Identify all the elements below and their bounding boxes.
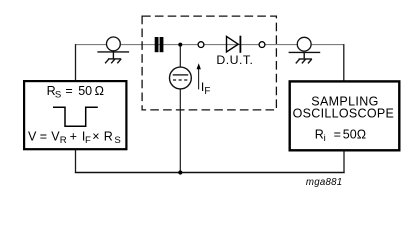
wire: bottom ground bus	[76, 171, 345, 174]
svg-text:IF: IF	[201, 80, 210, 97]
wire: top horizontal net from pulse generator to oscilloscope	[76, 44, 344, 46]
pulse generator box	[24, 81, 126, 149]
svg-text:OSCILLOSCOPE: OSCILLOSCOPE	[293, 106, 395, 120]
terminal pin (left of D.U.T.)	[198, 42, 204, 48]
sampling oscilloscope box	[290, 81, 400, 150]
dashed test-fixture enclosure	[142, 16, 276, 110]
ground (right connector)	[289, 52, 321, 63]
wire: vertical from oscilloscope box down to ground bus	[343, 151, 345, 173]
diode D.U.T.	[227, 36, 242, 53]
capacitor C1 (DC block)	[155, 37, 164, 52]
wire: vertical from top net down to oscilloscope box	[343, 44, 345, 81]
wire: vertical from current source down to ground bus	[179, 86, 181, 173]
wire: vertical from top net down to pulse-generator box	[75, 44, 77, 80]
wire: vertical from pulse-generator box down to ground bus	[75, 150, 77, 173]
coax connector J2 (right)	[297, 37, 311, 51]
junction on ground bus	[178, 170, 182, 174]
current source U1 (DC source symbol)	[170, 67, 192, 89]
svg-text:mga881: mga881	[306, 177, 343, 188]
terminal pin (right of D.U.T.)	[259, 42, 265, 48]
coax connector J1 (left)	[107, 37, 121, 51]
svg-text:D.U.T.: D.U.T.	[216, 53, 253, 67]
arrow IF (current direction)	[197, 63, 201, 89]
node A (junction after capacitor)	[178, 43, 182, 47]
ground (left connector)	[97, 52, 129, 63]
pulse waveform symbol	[53, 107, 98, 126]
wire: vertical from node A down to current source	[179, 45, 181, 70]
